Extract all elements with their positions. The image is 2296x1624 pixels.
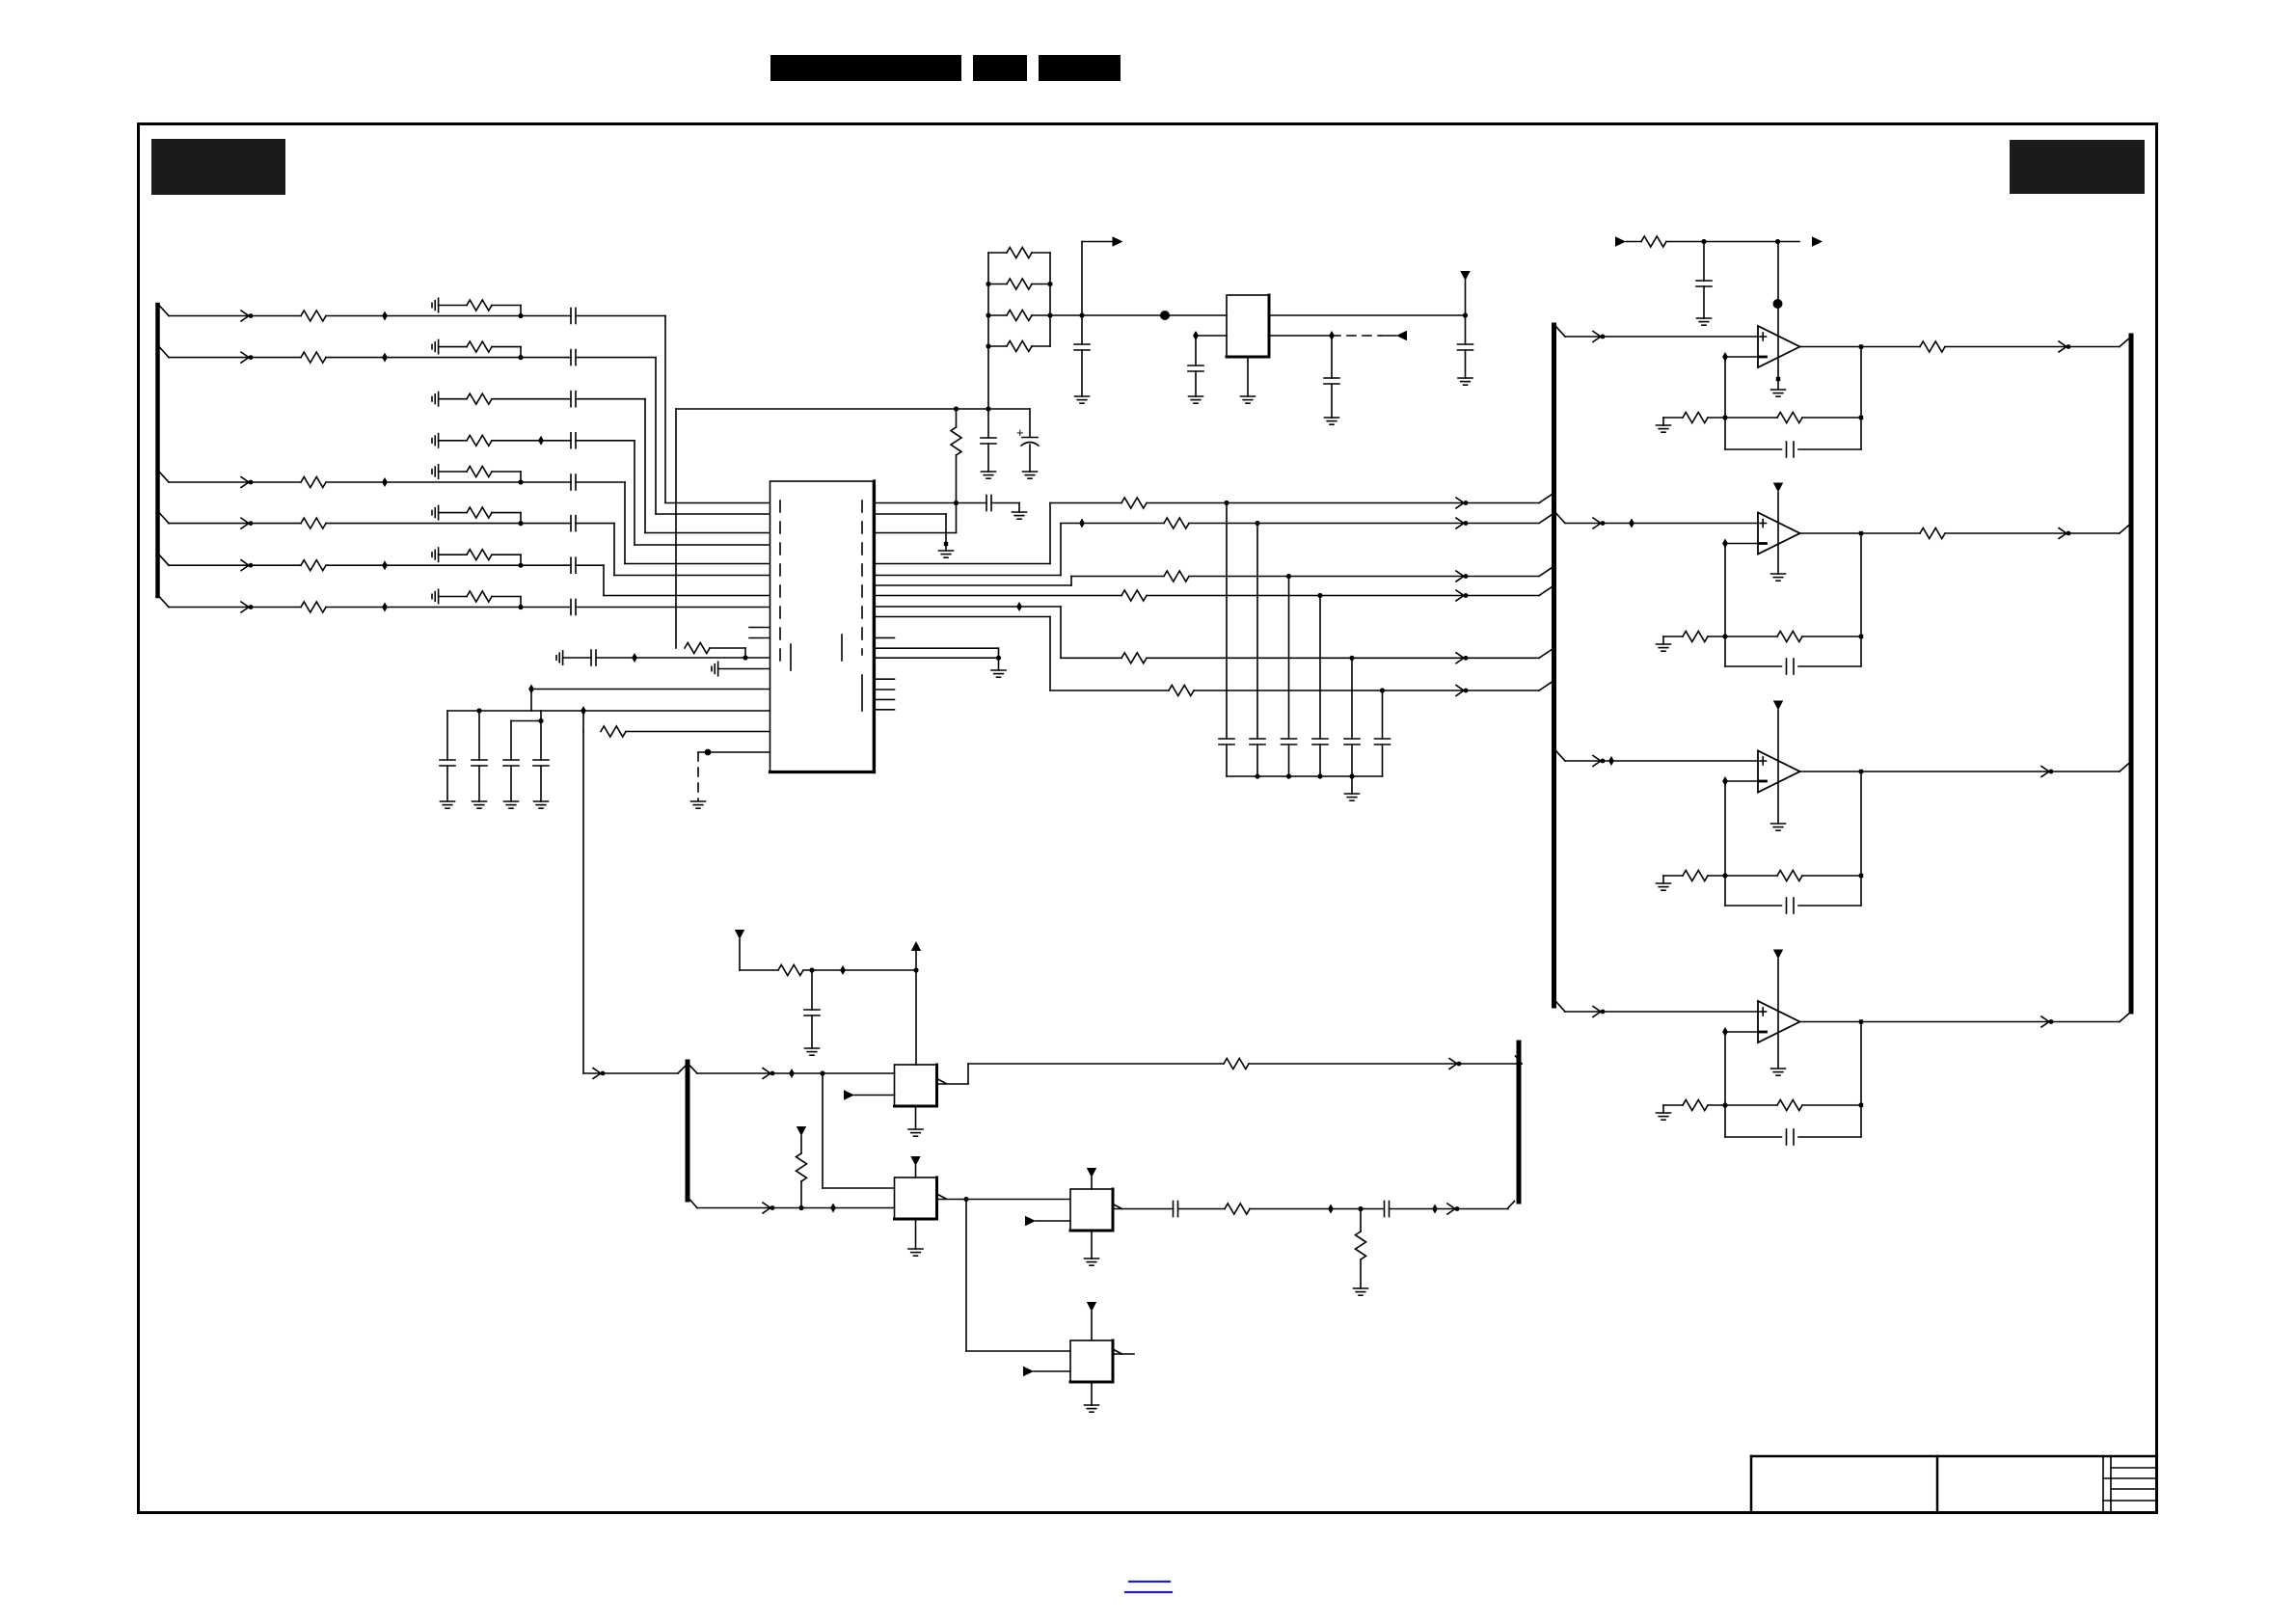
capacitor C12 (bypass) bbox=[472, 711, 487, 801]
arrow L4 bbox=[1456, 590, 1468, 601]
wire R10 to IC bbox=[626, 731, 770, 733]
wire sense pin to IC bbox=[698, 751, 770, 753]
capacitor C24 (L3 shunt) bbox=[1282, 577, 1297, 777]
resistor R22 (L6 series) bbox=[1169, 686, 1194, 696]
ground C18 bbox=[1458, 378, 1472, 385]
capacitor C20 bbox=[981, 409, 996, 472]
wire col3/col4 tap bbox=[540, 711, 542, 721]
IC U1 inner bar A bbox=[790, 644, 792, 670]
capacitor C1a (open lead) bbox=[432, 298, 439, 311]
resistor Rg4 bbox=[1683, 1100, 1708, 1111]
junction cap rail bbox=[1286, 773, 1291, 778]
capacitor C16 bbox=[1074, 315, 1090, 396]
power flag U5 bbox=[1773, 701, 1783, 711]
wire input row 1 bbox=[169, 315, 301, 317]
resistor R21 (L5 series) bbox=[1121, 653, 1147, 663]
ground U2 bbox=[1241, 396, 1256, 403]
wire row 8 to IC pin bbox=[576, 607, 770, 609]
power flag T1 supply bbox=[735, 930, 744, 939]
output bus 2 bevel top bbox=[1516, 1056, 1523, 1064]
arrow select line bbox=[763, 1203, 774, 1213]
capacitor C15 (series) bbox=[986, 496, 991, 511]
ground feedback U3 bbox=[1657, 418, 1671, 432]
arrow VREF out bbox=[1113, 236, 1123, 247]
wire power rail bbox=[1626, 241, 1641, 243]
wire feedback left leg U3 bbox=[1724, 357, 1726, 449]
bus bevel out U4 bbox=[2120, 524, 2131, 534]
junction stack right 2 bbox=[1047, 282, 1052, 286]
capacitor C3s (series) bbox=[571, 392, 576, 407]
wire row 7 to IC pin bbox=[576, 565, 770, 595]
capacitor Cf4 bbox=[1725, 1129, 1861, 1145]
ground C14 bbox=[534, 801, 549, 808]
wire Q4 output stub bbox=[1113, 1353, 1134, 1355]
cap bank common rail bbox=[1227, 775, 1383, 777]
wire bias column to arrow bbox=[583, 1072, 678, 1074]
resistor R17 (L1 series) bbox=[1121, 498, 1147, 508]
junction out3 load bbox=[1358, 1206, 1363, 1211]
wire C10 to IC bbox=[718, 668, 770, 670]
capacitor C25 (L4 shunt) bbox=[1312, 596, 1328, 777]
power rail arrow left bbox=[1615, 236, 1626, 247]
wire U2 output bbox=[1269, 314, 1466, 316]
junction select pullup bbox=[798, 1205, 803, 1210]
ground U4 bbox=[1771, 493, 1786, 582]
arrow gate bus in bbox=[593, 1069, 605, 1079]
junction row 1 bbox=[518, 313, 523, 318]
wire net11 jog down bbox=[530, 690, 532, 712]
wire +in U3 bbox=[1565, 336, 1758, 338]
resistor Rf1 bbox=[1777, 413, 1802, 423]
resistor R2 bbox=[301, 352, 326, 363]
resistor R4b bbox=[467, 435, 492, 446]
wire gnd res U4 bbox=[1663, 636, 1683, 637]
junction fb node U6 bbox=[1722, 1102, 1727, 1107]
capacitor Cf1 bbox=[1725, 442, 1861, 457]
capacitor C26 (L5 shunt) bbox=[1344, 658, 1360, 776]
capacitor C10 (open lead) bbox=[712, 662, 718, 675]
wire Q3 output bbox=[1113, 1208, 1174, 1210]
wire feedback right leg U5 bbox=[1860, 771, 1862, 906]
resistor R6b bbox=[467, 507, 492, 518]
wire RC row 7 bbox=[439, 554, 467, 555]
wire gate T2 drop bbox=[823, 1073, 895, 1188]
resistor R25 (supply filter) bbox=[778, 965, 803, 976]
redacted title bar segment 2 bbox=[973, 55, 1027, 81]
power flag down bbox=[1460, 271, 1470, 315]
resistor R19 (L3 series) bbox=[1164, 571, 1189, 582]
wire rail to ground bbox=[1351, 776, 1353, 794]
resistor R28 (Q1 out) bbox=[1224, 1059, 1249, 1069]
IC U1 inner bar C bbox=[861, 675, 863, 711]
bus bevel out U3 bbox=[2120, 337, 2131, 347]
ground C12 bbox=[473, 801, 487, 808]
arrow L5 bbox=[1456, 653, 1468, 663]
wire Q2 ground bbox=[915, 1219, 917, 1249]
IC U1 stub pin right 2 bbox=[875, 678, 895, 680]
arrow Q3 gate2 bbox=[1025, 1216, 1036, 1227]
bus entry bevel row 1 bbox=[159, 306, 169, 316]
wire input row 5 bbox=[169, 481, 301, 483]
wire T1 supply bbox=[740, 939, 778, 970]
IC U1 dashed marker right bbox=[861, 501, 863, 655]
capacitor C26 (series) bbox=[1174, 1202, 1178, 1217]
wire row 2 to series cap bbox=[521, 357, 571, 359]
wire net12 rail bbox=[447, 710, 770, 712]
ground sense bbox=[691, 801, 706, 808]
wire RC row 5 drop bbox=[492, 472, 521, 482]
junction row 6 bbox=[518, 521, 523, 526]
wire Rf3 to out leg bbox=[1802, 875, 1861, 877]
ground C13 bbox=[504, 801, 519, 808]
wire fb res lead U3 bbox=[1725, 417, 1777, 419]
junction C12 bbox=[476, 708, 481, 713]
arrow input row 5 bbox=[241, 477, 253, 488]
power flag pullup bbox=[797, 1126, 806, 1136]
op-amp input bus bbox=[1552, 325, 1556, 1006]
arrow input row 2 bbox=[241, 352, 253, 363]
transistor Q1 bbox=[895, 1065, 937, 1106]
wire row 3 to series cap bbox=[492, 398, 571, 400]
arrow power rail right bbox=[1812, 236, 1823, 247]
wire row 1 to RC junction bbox=[326, 315, 521, 317]
wire row 7 to RC junction bbox=[326, 564, 521, 566]
junction rail U3 bbox=[1775, 239, 1780, 244]
bus bevel L1 bbox=[1539, 495, 1553, 503]
junction VDD rail / stack bbox=[986, 406, 990, 411]
IC U1 stub pin left 1 bbox=[749, 627, 770, 629]
arrow input row 7 bbox=[241, 560, 253, 571]
terminal q2 bbox=[944, 542, 948, 546]
junction cap rail bbox=[1255, 773, 1259, 778]
resistor Rf4 bbox=[1777, 1100, 1802, 1111]
capacitor C27 (L6 shunt) bbox=[1375, 690, 1391, 776]
node diamond -in U6 bbox=[1722, 1027, 1728, 1037]
resistor Rg2 bbox=[1683, 632, 1708, 642]
capacitor C23 (L2 shunt) bbox=[1250, 524, 1265, 777]
wire input row 8 bbox=[169, 607, 301, 609]
junction row 5 bbox=[518, 479, 523, 484]
net flag up bbox=[911, 941, 921, 951]
resistor Rg1 bbox=[1683, 413, 1708, 423]
wire row 1 to IC pin bbox=[576, 316, 770, 503]
wire +in U5 bbox=[1565, 760, 1758, 762]
capacitor C9a (open lead) bbox=[556, 651, 563, 664]
arrow input row 1 bbox=[241, 311, 253, 321]
wire out U4 bbox=[1800, 532, 1921, 534]
wire IC q to L4 bbox=[875, 595, 1122, 597]
wire row 6 to series cap bbox=[521, 523, 571, 525]
arrow out U3 bbox=[2059, 341, 2070, 352]
wire IC q to L2 jog bbox=[875, 524, 1165, 576]
arrow L2 bbox=[1456, 518, 1468, 528]
arrow L6 bbox=[1456, 686, 1468, 696]
IC U1 inner bar B bbox=[841, 635, 843, 661]
resistor R2b bbox=[467, 341, 492, 352]
wire row 5 to IC pin bbox=[576, 482, 770, 564]
ground Q2 bbox=[908, 1249, 923, 1256]
IC U1 stub pin left 2 bbox=[749, 637, 770, 639]
op-amp U4 bbox=[1758, 513, 1800, 555]
junction gate T1/T2 bbox=[820, 1070, 824, 1075]
junction U2 out bbox=[1463, 312, 1468, 317]
wire IC pin net q1 bbox=[875, 502, 987, 504]
capacitor C27 (series) bbox=[1385, 1202, 1390, 1217]
arrow out3 bbox=[1447, 1204, 1459, 1214]
wire gate T1 bbox=[697, 1072, 895, 1074]
IC U1 stub pin right 3 bbox=[875, 689, 895, 690]
dashed wire sense to ground bbox=[697, 752, 699, 800]
wire C9a to C9s bbox=[563, 657, 591, 659]
junction stack left 4 bbox=[986, 343, 990, 348]
bus bevel L5 bbox=[1539, 649, 1553, 658]
title block bbox=[1751, 1456, 2156, 1512]
wire gnd res U6 bbox=[1663, 1104, 1683, 1106]
junction L3 cap tap bbox=[1286, 574, 1291, 579]
wire C27 to bus2 bbox=[1390, 1208, 1509, 1210]
op-amp U6 bbox=[1758, 1001, 1800, 1042]
arrow input row 8 bbox=[241, 602, 253, 612]
node diamond row 5 bbox=[382, 477, 388, 487]
resistor stack right rail bbox=[1049, 253, 1051, 346]
bus entry bevel row 6 bbox=[159, 513, 169, 524]
wire U2 sense bbox=[1269, 335, 1332, 337]
junction out leg U5 bbox=[1859, 874, 1863, 878]
IC U1 body bbox=[770, 481, 875, 772]
junction output U4 bbox=[1859, 531, 1863, 535]
wire row 2 to RC junction bbox=[326, 357, 521, 359]
wire IC q to L1 jog bbox=[875, 503, 1122, 564]
arrow out U6 bbox=[2041, 1016, 2053, 1027]
node U3 power big dot bbox=[1773, 299, 1783, 309]
wire fb res lead U4 bbox=[1725, 636, 1777, 637]
capacitor C6a (open lead) bbox=[432, 505, 439, 519]
wire out U6 bbox=[1800, 1021, 2120, 1023]
node diamond row 7 bbox=[382, 560, 388, 570]
gate bus bevel out top bbox=[690, 1066, 698, 1073]
wire Rf1 to out leg bbox=[1802, 417, 1861, 419]
wire Rg1 to node bbox=[1708, 417, 1725, 419]
bus bevel op-amp U5 +in bbox=[1556, 751, 1565, 761]
junction stack left 2 bbox=[986, 282, 990, 286]
schematic frame border bbox=[139, 124, 2157, 1513]
wire R25 to node bbox=[803, 969, 916, 971]
wire L1 to bus bbox=[1147, 502, 1539, 504]
wire out U3 bbox=[1800, 346, 1921, 348]
wire Q2 out down bbox=[965, 1200, 967, 1352]
wire -in U4 bbox=[1725, 543, 1758, 545]
Q3 source notch bbox=[1113, 1204, 1122, 1209]
resistor R7b bbox=[467, 550, 492, 560]
ground cap bank bbox=[1345, 794, 1360, 800]
VDD rail horizontal bbox=[676, 408, 1030, 410]
wire Q4 gate2 bbox=[1034, 1370, 1070, 1372]
wire Rf4 to out leg bbox=[1802, 1104, 1861, 1106]
capacitor C9s (series) bbox=[591, 650, 596, 665]
resistor R11 (feedback column) bbox=[951, 409, 961, 503]
capacitor C8a (open lead) bbox=[432, 589, 439, 603]
wire feedback left leg U5 bbox=[1724, 781, 1726, 906]
resistor Rg3 bbox=[1683, 871, 1708, 881]
wire rail segment bbox=[1666, 241, 1799, 243]
node diamond select bbox=[830, 1204, 836, 1213]
capacitor C25 bbox=[804, 970, 820, 1048]
arrow +in U4 bbox=[1593, 518, 1605, 528]
wire row 3 bbox=[439, 398, 467, 400]
wire L5 to bus bbox=[1147, 657, 1539, 659]
junction L1 cap tap bbox=[1224, 501, 1229, 505]
wire row 4 diamond to cap bbox=[541, 440, 571, 442]
resistor R20 (L4 series) bbox=[1121, 590, 1147, 601]
wire Q3 power bbox=[1091, 1177, 1093, 1189]
resistor R14 (parallel stack) bbox=[988, 311, 1050, 321]
bus entry bevel row 5 bbox=[159, 472, 169, 482]
capacitor C24 (rail) bbox=[1696, 242, 1712, 319]
bus bevel op-amp U6 +in bbox=[1556, 1002, 1565, 1012]
wire net11 to IC bbox=[531, 689, 770, 690]
arrow input row 6 bbox=[241, 518, 253, 528]
op-amp U5 bbox=[1758, 751, 1800, 793]
node VIN big dot bbox=[1160, 311, 1170, 320]
wire Rg2 to node bbox=[1708, 636, 1725, 637]
capacitor C1s (series) bbox=[571, 309, 576, 324]
wire RC row 6 drop bbox=[492, 513, 521, 524]
junction Q2 out bbox=[963, 1197, 968, 1202]
junction decouple bbox=[996, 656, 1001, 661]
wire q682 row bbox=[875, 657, 999, 659]
junction R11 top bbox=[954, 406, 959, 411]
op-amp U3 bbox=[1758, 326, 1800, 367]
wire RC row 8 bbox=[439, 596, 467, 598]
node diamond row 8 bbox=[382, 603, 388, 612]
wire Rg3 to node bbox=[1708, 875, 1725, 877]
resistor R13 (parallel stack) bbox=[988, 279, 1050, 289]
capacitor C4s (series) bbox=[571, 433, 576, 448]
junction cap rail bbox=[1349, 773, 1354, 778]
resistor Ro1 bbox=[1920, 341, 1945, 352]
node diamond gate T1 bbox=[789, 1069, 795, 1078]
ground C16 bbox=[1075, 396, 1090, 403]
wire rail to C21 bbox=[1029, 409, 1031, 437]
wire supply to T1 drain bbox=[915, 951, 917, 1065]
arrow gate T1 bbox=[763, 1069, 774, 1079]
wire Q1 output bbox=[937, 1064, 1225, 1084]
wire tap up to arrow bbox=[1082, 242, 1113, 316]
junction output U5 bbox=[1859, 770, 1863, 773]
redacted title bar segment 3 bbox=[1039, 55, 1121, 81]
arrow L1 bbox=[1456, 498, 1468, 508]
wire RC row 2 bbox=[439, 346, 467, 348]
gate bus bevel out bottom bbox=[690, 1200, 698, 1208]
junction fb node U5 bbox=[1722, 873, 1727, 878]
wire +in U6 bbox=[1565, 1011, 1758, 1013]
node diamond out3 a bbox=[1328, 1204, 1334, 1214]
arrow +in U6 bbox=[1593, 1007, 1605, 1017]
ground feedback U5 bbox=[1657, 876, 1671, 890]
bus bevel L2 bbox=[1539, 515, 1553, 524]
wire VDD rail to filter resistor bbox=[675, 409, 677, 648]
junction out leg U6 bbox=[1859, 1103, 1863, 1107]
wire row 3 to IC pin bbox=[576, 399, 770, 533]
node diamond net12 bbox=[581, 706, 586, 716]
wire row 5 to RC junction bbox=[326, 481, 521, 483]
wire bias column down bbox=[582, 732, 584, 1074]
capacitor C2a (open lead) bbox=[432, 339, 439, 353]
junction supply C25 bbox=[809, 967, 814, 972]
power flag U6 bbox=[1773, 950, 1783, 960]
wire feedback right leg U3 bbox=[1860, 347, 1862, 450]
arrow Q1 gate2 bbox=[844, 1090, 854, 1100]
junction output U3 bbox=[1859, 344, 1863, 348]
node diamond sense bbox=[1329, 331, 1335, 340]
wire input row 2 bbox=[169, 357, 301, 359]
junction stack right 3 bbox=[1047, 312, 1052, 317]
wire row 4 bbox=[439, 440, 467, 442]
wire U2 gnd pin bbox=[1247, 357, 1249, 396]
wire L2 to bus bbox=[1189, 523, 1539, 525]
wire RC row 8 drop bbox=[492, 597, 521, 608]
node diamond U2 adj bbox=[1193, 331, 1199, 340]
wire tap to C13 bbox=[511, 720, 541, 722]
capacitor Cf2 bbox=[1725, 659, 1861, 674]
resistor R3b bbox=[467, 393, 492, 404]
ground C21 bbox=[1023, 472, 1038, 478]
wire row 4 to IC pin bbox=[576, 441, 770, 545]
wire feedback right leg U6 bbox=[1860, 1022, 1862, 1138]
capacitor C6s (series) bbox=[571, 516, 576, 531]
resistor Ro2 bbox=[1920, 528, 1945, 539]
arrow sense link bbox=[1396, 331, 1407, 341]
wire select line bbox=[697, 1207, 895, 1209]
capacitor Cf3 bbox=[1725, 898, 1861, 913]
ground C15 bbox=[1013, 512, 1027, 519]
wire C26 to R26 bbox=[1178, 1208, 1226, 1210]
resistor R8b bbox=[467, 591, 492, 602]
wire stack out bbox=[1050, 314, 1227, 316]
wire Q4 power bbox=[1091, 1312, 1093, 1340]
ground q2 bbox=[939, 551, 954, 557]
wire q3 to q1 net bbox=[875, 503, 957, 533]
capacitor C13 (bypass) bbox=[503, 721, 519, 802]
capacitor C4a (open lead) bbox=[432, 434, 439, 447]
ground R27 bbox=[1354, 1288, 1368, 1295]
node diamond row 2 bbox=[382, 353, 388, 363]
arrow out U5 bbox=[2041, 767, 2053, 777]
resistor R5b bbox=[467, 467, 492, 477]
node diamond net11 bbox=[528, 685, 534, 694]
ground decouple bbox=[991, 670, 1006, 677]
power flag Q3 bbox=[1087, 1168, 1096, 1177]
wire net12 column to R10 bbox=[582, 711, 584, 732]
capacitor C18 bbox=[1458, 315, 1473, 378]
bus entry bevel row 2 bbox=[159, 347, 169, 358]
wire row 2 to IC pin bbox=[576, 358, 770, 514]
wire out2 U4 bbox=[1945, 532, 2120, 534]
junction L6 cap tap bbox=[1380, 688, 1385, 692]
wire input row 7 bbox=[169, 564, 301, 566]
wire Q3 ground bbox=[1091, 1231, 1093, 1259]
junction cap rail bbox=[1317, 773, 1322, 778]
wire Q4 gate1 bbox=[966, 1350, 1070, 1352]
redacted hyperlink line 2 bbox=[1125, 1591, 1172, 1593]
junction supply node bbox=[913, 967, 918, 972]
wire row 6 to IC pin bbox=[576, 524, 770, 576]
node diamond row 1 bbox=[382, 311, 388, 321]
wire Rf2 to out leg bbox=[1802, 636, 1861, 637]
capacitor C11 (bypass) bbox=[440, 711, 455, 801]
wire -in U3 bbox=[1725, 356, 1758, 358]
wire IC q to L6 jog bbox=[875, 617, 1170, 691]
